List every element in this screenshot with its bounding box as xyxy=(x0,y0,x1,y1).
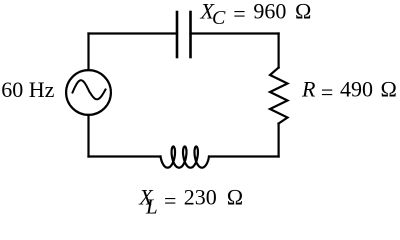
wire left-top segment xyxy=(87,34,89,71)
svg-text:C: C xyxy=(212,7,226,29)
wire right-top segment xyxy=(278,34,280,68)
wire bottom-left segment xyxy=(89,155,161,157)
resistor R xyxy=(270,68,288,124)
svg-text:490: 490 xyxy=(340,76,373,101)
svg-text:R: R xyxy=(301,76,316,101)
wire right-bottom segment xyxy=(278,124,280,157)
svg-text:=: = xyxy=(164,188,176,213)
svg-text:960: 960 xyxy=(253,0,286,24)
label R = 490 ohm xyxy=(301,76,397,104)
capacitor C xyxy=(177,12,191,57)
label XC = 960 ohm xyxy=(200,0,312,29)
wire left-bottom segment xyxy=(87,115,89,157)
svg-text:Ω: Ω xyxy=(227,185,244,210)
svg-text:Ω: Ω xyxy=(295,0,312,24)
label 60 Hz xyxy=(1,77,54,102)
svg-text:=: = xyxy=(321,80,333,105)
svg-text:=: = xyxy=(233,1,245,26)
AC source V1 xyxy=(66,70,111,115)
wire bottom-right segment xyxy=(209,155,279,157)
svg-text:230: 230 xyxy=(184,185,217,210)
svg-text:60 Hz: 60 Hz xyxy=(1,77,54,102)
label XL = 230 ohm xyxy=(138,185,243,219)
wire top-left segment xyxy=(89,32,178,34)
svg-text:Ω: Ω xyxy=(380,76,397,101)
svg-text:L: L xyxy=(145,195,158,219)
inductor L xyxy=(161,147,210,168)
wire top-right segment xyxy=(191,32,279,34)
